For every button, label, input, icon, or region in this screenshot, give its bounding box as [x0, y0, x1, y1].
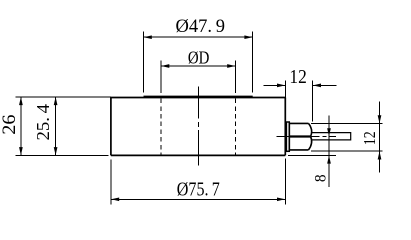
- svg-text:ØD: ØD: [188, 47, 210, 67]
- dim 12 right: [311, 102, 383, 173]
- arrow pointing right at body edge: [277, 84, 285, 88]
- extension line bottom: [16, 154, 109, 156]
- arrow left Ø47.9: [144, 35, 152, 39]
- svg-text:12: 12: [289, 67, 306, 88]
- connector hex nut: [289, 123, 311, 149]
- arrow left Ø75.7: [111, 197, 119, 201]
- dim 25.4: [55, 97, 57, 155]
- arrow down 25.4: [54, 147, 58, 155]
- arrow left ØD: [161, 64, 169, 68]
- svg-text:Ø75. 7: Ø75. 7: [177, 179, 220, 200]
- hex upper facet arc: [309, 123, 312, 136]
- extension line right: [235, 61, 237, 94]
- svg-text:Ø47. 9: Ø47. 9: [176, 16, 226, 37]
- extension line bottom (connector bottom): [311, 150, 383, 152]
- extension line left: [160, 61, 162, 94]
- dimension line: [55, 97, 57, 155]
- connector pin: [312, 133, 351, 140]
- svg-text:8: 8: [312, 174, 329, 182]
- hex middle corner edge: [289, 135, 310, 137]
- arrow up 26: [19, 97, 23, 105]
- extension line top (connector top): [311, 123, 383, 125]
- dimension line: [20, 97, 22, 155]
- arrow right Ø75.7: [277, 197, 285, 201]
- boss top edge: [144, 95, 253, 97]
- dimension line: [144, 36, 253, 38]
- dimension line right segment: [313, 84, 337, 86]
- extension line right: [252, 32, 254, 93]
- arrow down (top, outside) 12 right: [378, 115, 382, 123]
- svg-text:25. 4: 25. 4: [33, 104, 53, 141]
- arrow right ØD: [227, 64, 235, 68]
- arrow down (tip at centerline) 8: [327, 128, 331, 136]
- extension line (hex right side): [312, 80, 314, 121]
- dimension line: [379, 102, 381, 173]
- extension line left: [143, 32, 145, 93]
- body vertical centerline: [197, 87, 199, 166]
- arrow right Ø47.9: [244, 35, 252, 39]
- hidden line left (bore ØD): [160, 99, 162, 155]
- extension line (body bottom extended right): [288, 155, 336, 157]
- dimension line: [161, 65, 236, 67]
- extension line left: [110, 160, 112, 205]
- arrow down 26: [19, 147, 23, 155]
- hidden line right (bore ØD): [235, 99, 237, 155]
- dim 26: [16, 97, 111, 155]
- dimension line left segment: [263, 84, 285, 86]
- svg-text:12: 12: [360, 131, 379, 145]
- dimension line: [111, 198, 285, 200]
- dim 8: [288, 115, 336, 187]
- svg-text:26: 26: [0, 115, 20, 135]
- dim Ø47.9: [144, 32, 253, 93]
- body outline: [111, 98, 285, 156]
- extension line top: [16, 96, 111, 98]
- hex lower facet arc: [309, 137, 312, 150]
- connector flange: [286, 122, 289, 151]
- arrow pointing left at hex right: [313, 84, 321, 88]
- dim ØD: [161, 61, 236, 94]
- connector horizontal centerline: [276, 135, 336, 137]
- extension line right: [284, 159, 286, 205]
- dim 12 top: [263, 80, 336, 121]
- dim Ø75.7: [111, 159, 285, 205]
- arrow up (tip at body bottom) 8: [327, 155, 331, 163]
- dimension line: [328, 115, 330, 187]
- arrow up (bottom, outside) 12 right: [378, 151, 382, 159]
- extension line (body right edge extended up): [284, 80, 286, 97]
- arrow up 25.4: [54, 97, 58, 105]
